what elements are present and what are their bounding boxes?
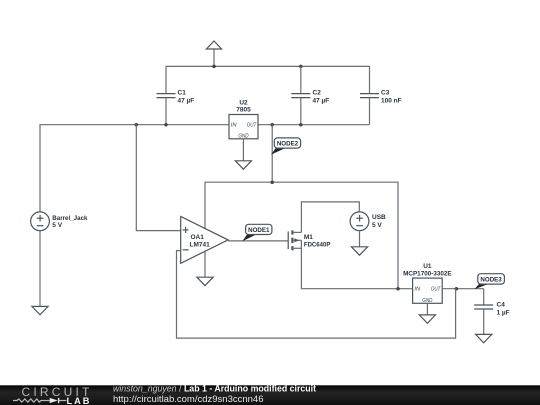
svg-text:OA1: OA1 <box>191 234 205 241</box>
junction C1 bottom <box>164 123 168 127</box>
junction feed to op-amp <box>135 123 139 127</box>
op-amp OA1 LM741 <box>181 217 228 264</box>
ground U1 <box>419 303 435 323</box>
power symbol VCC arrow <box>206 41 221 66</box>
svg-text:OUT: OUT <box>431 287 441 293</box>
transistor M1 FDC640P <box>288 230 331 250</box>
junction C2 bottom <box>299 123 303 127</box>
net flag NODE1 <box>242 224 272 241</box>
capacitor C3 <box>360 90 402 125</box>
capacitor C1 <box>157 90 195 125</box>
svg-text:U1: U1 <box>423 263 432 270</box>
wire U1 OUT to C4 <box>442 288 484 290</box>
svg-text:GND: GND <box>238 134 248 140</box>
svg-text:LAB: LAB <box>67 396 92 405</box>
ground C4 <box>476 334 492 342</box>
svg-text:5 V: 5 V <box>372 222 382 229</box>
svg-text:http://circuitlab.com/cdz9sn3c: http://circuitlab.com/cdz9sn3ccnn46 <box>113 394 264 405</box>
svg-text:LM741: LM741 <box>190 242 211 249</box>
wire NODE2 drop <box>271 125 273 183</box>
svg-text:NODE2: NODE2 <box>277 141 299 148</box>
svg-text:MCP1700-3302E: MCP1700-3302E <box>403 270 452 277</box>
wire to op-amp + input <box>136 125 180 231</box>
footer bar <box>0 383 540 405</box>
svg-text:winston_nguyen / Lab 1 - Ardui: winston_nguyen / Lab 1 - Arduino modifie… <box>113 383 316 393</box>
capacitor C4 <box>474 289 509 335</box>
wire M1 top to USB <box>301 202 359 233</box>
svg-text:100 nF: 100 nF <box>381 98 402 105</box>
voltage regulator U2 7805 <box>229 99 258 139</box>
junction C2 top <box>299 65 303 69</box>
svg-text:47 µF: 47 µF <box>178 98 195 105</box>
svg-text:C1: C1 <box>178 90 187 97</box>
svg-text:FDC640P: FDC640P <box>304 241 331 248</box>
svg-text:C3: C3 <box>381 90 390 97</box>
capacitor C2 <box>291 66 329 124</box>
ground barrel jack <box>32 231 48 315</box>
svg-text:USB: USB <box>372 214 386 221</box>
net flag NODE3 <box>474 274 504 290</box>
wire M1 bottom to U1 IN rail <box>301 240 412 288</box>
voltage regulator U1 MCP1700-3302E <box>403 263 452 304</box>
junction VCC/top rail <box>212 65 216 69</box>
svg-text:IN: IN <box>231 123 238 129</box>
svg-text:7805: 7805 <box>236 107 251 114</box>
voltage source V1 Barrel_Jack <box>31 212 88 231</box>
svg-text:NODE1: NODE1 <box>248 227 270 234</box>
junction NODE2 tap <box>270 123 274 127</box>
wire feedback loop (op-amp minus to output) <box>177 251 456 339</box>
wire U2 OUT rail <box>258 124 370 126</box>
svg-text:C2: C2 <box>313 90 322 97</box>
svg-text:NODE3: NODE3 <box>480 277 502 284</box>
svg-text:OUT: OUT <box>247 123 257 129</box>
svg-text:U2: U2 <box>239 99 248 106</box>
wire op-amp V+ supply rail <box>205 182 398 289</box>
junction supply drop / IN rail <box>396 287 400 291</box>
ground op-amp <box>197 252 213 286</box>
junction V+ rail / NODE2 drop <box>270 180 274 184</box>
voltage source V2 USB <box>350 212 386 231</box>
net flag NODE2 <box>271 138 301 155</box>
ground U2 <box>235 139 251 169</box>
svg-text:5 V: 5 V <box>52 222 62 229</box>
wire input rail (barrel jack to U2 IN) <box>40 125 229 212</box>
svg-text:47 µF: 47 µF <box>313 98 330 105</box>
svg-text:1 µF: 1 µF <box>497 310 510 317</box>
wire top rail <box>166 66 370 93</box>
junction feedback tap <box>455 287 459 291</box>
svg-text:M1: M1 <box>304 234 313 241</box>
svg-text:C4: C4 <box>497 302 506 309</box>
ground USB <box>351 231 367 256</box>
logo resistor zigzag and diode <box>13 399 50 402</box>
wire op-amp output to M1 gate <box>228 240 288 242</box>
svg-text:IN: IN <box>414 287 421 293</box>
